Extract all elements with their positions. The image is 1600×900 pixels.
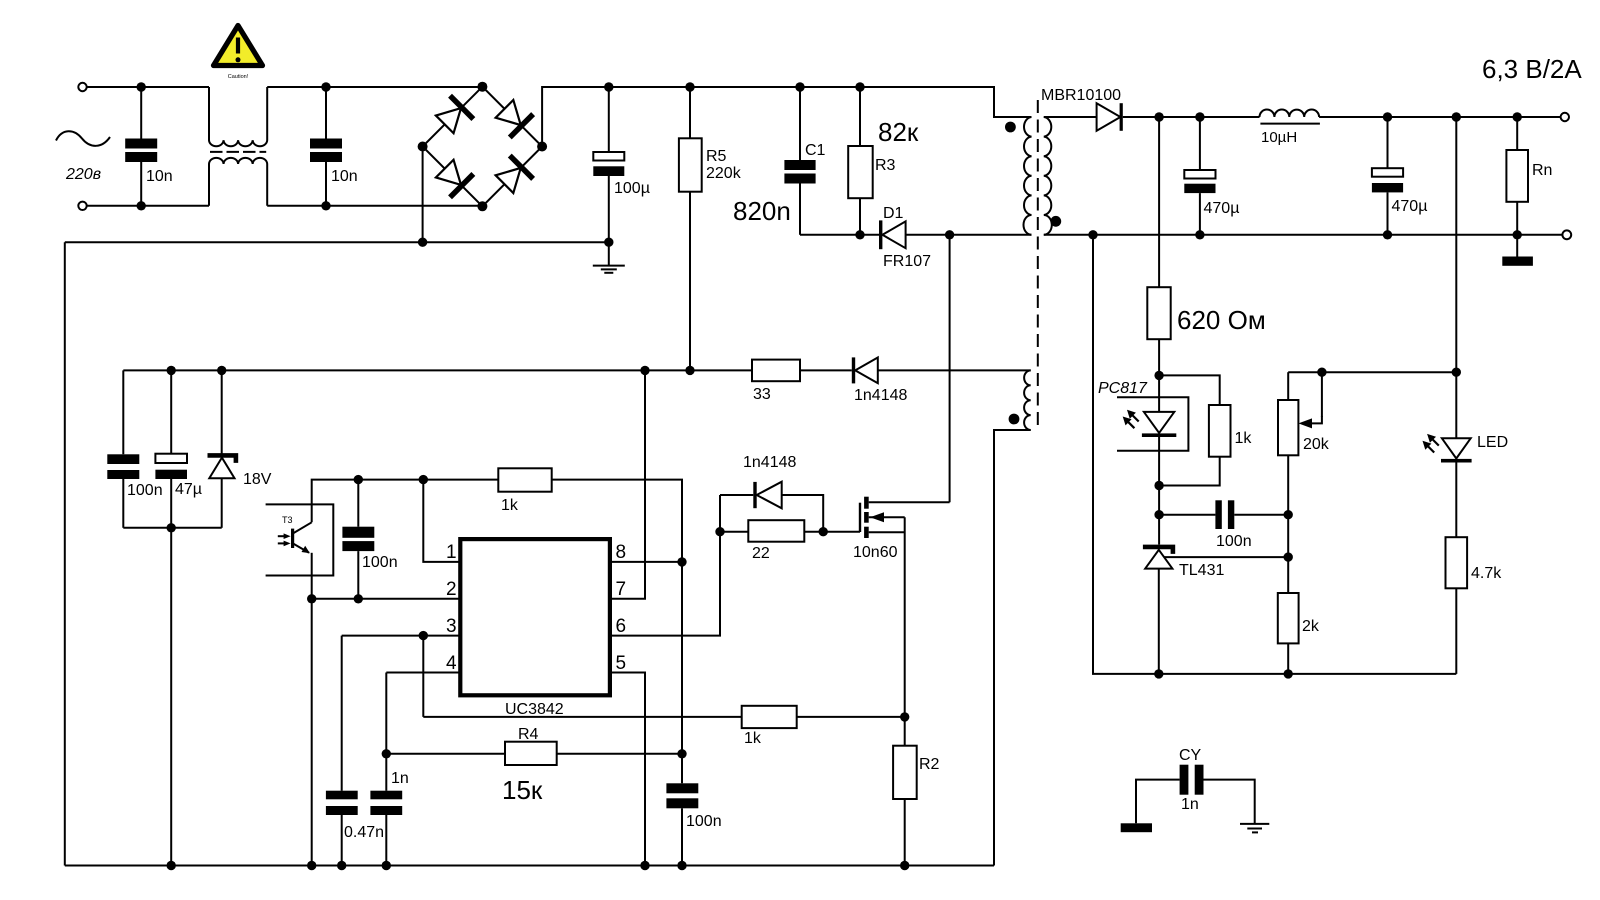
ground earth symbol under C4 bbox=[593, 242, 625, 273]
capacitor C9 100n bbox=[107, 370, 162, 527]
wire AC top left bbox=[87, 86, 209, 88]
wire secondary top bbox=[1044, 116, 1097, 118]
junction dot bbox=[167, 366, 176, 375]
junction dot bbox=[1383, 112, 1392, 121]
terminal output plus bbox=[1561, 113, 1569, 121]
junction dot bbox=[1513, 230, 1522, 239]
diode D6 1n4148 gate bbox=[720, 454, 823, 532]
wire 1k to source node bbox=[797, 716, 905, 718]
capacitor C2 10n bbox=[125, 87, 173, 206]
wire aux return to ground bbox=[994, 430, 1031, 866]
capacitor C4 100u electrolytic bbox=[593, 87, 650, 242]
svg-text:R3: R3 bbox=[875, 157, 896, 174]
capacitor C6 470u electrolytic bbox=[1372, 117, 1428, 235]
junction dot gate bbox=[819, 527, 828, 536]
wire Vcc aux rail segment bbox=[800, 369, 852, 371]
transformer T1 aux winding bbox=[1024, 370, 1031, 430]
wire 20k top to LED line bbox=[1288, 371, 1456, 373]
junction dot bbox=[354, 594, 363, 603]
resistor R12 33 bbox=[752, 360, 800, 403]
junction dot bbox=[1452, 368, 1461, 377]
resistor R11 1k current sense bbox=[742, 706, 797, 747]
optocoupler U3 PC817 LED side box bbox=[1098, 380, 1188, 451]
terminal AC bottom bbox=[78, 202, 86, 210]
op-amp U1 UC3842 box bbox=[460, 539, 610, 718]
wire pin2 line bbox=[312, 598, 461, 600]
wire pin3 riser to current sense line bbox=[422, 636, 424, 717]
svg-text:620 Ом: 620 Ом bbox=[1177, 305, 1266, 335]
primary phase dot bbox=[1005, 122, 1016, 133]
capacitor C3 10n bbox=[310, 87, 358, 206]
capacitor C13 1n bbox=[370, 673, 408, 866]
bridge diode top-right bbox=[493, 97, 533, 137]
pin 6 bbox=[610, 495, 720, 637]
svg-text:1k: 1k bbox=[501, 497, 519, 514]
svg-text:C1: C1 bbox=[805, 142, 826, 159]
svg-text:2: 2 bbox=[446, 579, 457, 600]
wire DC+ rail to transformer bbox=[542, 87, 1031, 147]
wire output rail left bbox=[1123, 116, 1260, 118]
svg-text:0.47n: 0.47n bbox=[344, 824, 384, 841]
svg-text:CY: CY bbox=[1179, 747, 1202, 764]
resistor Rn load bbox=[1506, 117, 1552, 235]
inductor L2 10uH bbox=[1260, 110, 1320, 146]
diode D2 MBR10100 bbox=[1041, 87, 1123, 131]
junction dot bbox=[167, 523, 176, 532]
diode D1 FR107 bbox=[879, 205, 931, 270]
potentiometer RP1 20k bbox=[1278, 372, 1330, 593]
pin 1 bbox=[423, 480, 460, 563]
wire AC bottom left bbox=[87, 205, 209, 207]
pin 8 bbox=[610, 542, 682, 563]
bridge node left bbox=[418, 142, 428, 152]
svg-text:R2: R2 bbox=[919, 756, 940, 773]
pin 3 bbox=[342, 616, 461, 637]
svg-text:470µ: 470µ bbox=[1392, 198, 1428, 215]
svg-text:220в: 220в bbox=[65, 166, 101, 183]
junction dot bbox=[1154, 510, 1163, 519]
svg-text:1: 1 bbox=[446, 542, 457, 563]
svg-text:15к: 15к bbox=[502, 775, 543, 805]
svg-text:22: 22 bbox=[752, 545, 770, 562]
ground bar primary side CY bbox=[1121, 823, 1152, 832]
bridge node right bbox=[537, 142, 547, 152]
svg-text:6,3 В/2А: 6,3 В/2А bbox=[1482, 54, 1582, 84]
wire emitter node down to rail bbox=[311, 599, 313, 866]
wire Vcc aux rail to winding bbox=[878, 369, 1031, 371]
choke core dashed line bbox=[210, 151, 266, 153]
wire TL431 ref bbox=[1164, 556, 1288, 558]
junction dot bbox=[217, 366, 226, 375]
junction dot bbox=[1154, 481, 1163, 490]
resistor R5 220k bbox=[679, 87, 742, 370]
resistor R4 15k bbox=[386, 726, 682, 805]
svg-text:1n4148: 1n4148 bbox=[743, 454, 796, 471]
terminal output minus bbox=[1562, 230, 1571, 239]
junction dot bbox=[1195, 230, 1204, 239]
pin 7 bbox=[610, 370, 645, 600]
junction dot R4 left bbox=[382, 749, 391, 758]
svg-text:R4: R4 bbox=[518, 726, 539, 743]
junction dot pin5 rail bbox=[640, 861, 649, 870]
svg-text:4: 4 bbox=[446, 653, 457, 674]
junction dot bbox=[685, 366, 694, 375]
wire secondary bottom rail bbox=[1044, 234, 1563, 236]
wire AC bottom right bbox=[267, 205, 482, 207]
svg-text:Caution!: Caution! bbox=[228, 74, 249, 80]
junction dot bbox=[307, 594, 316, 603]
resistor R10 1k bbox=[498, 468, 551, 514]
junction dot bbox=[1383, 230, 1392, 239]
resistor R2 current sense bbox=[893, 746, 939, 866]
svg-text:LED: LED bbox=[1477, 434, 1508, 451]
junction dot bbox=[1452, 112, 1461, 121]
wire snubber bottom bbox=[800, 234, 879, 236]
capacitor C7 100n bbox=[1159, 500, 1288, 550]
junction dot bbox=[677, 861, 686, 870]
junction dot bbox=[137, 201, 146, 210]
resistor R8 2k bbox=[1278, 593, 1320, 674]
capacitor C1 820n bbox=[733, 87, 826, 235]
junction dot bbox=[1154, 669, 1163, 678]
junction dot bbox=[795, 82, 804, 91]
junction dot bbox=[137, 82, 146, 91]
chassis ground bar under Rn bbox=[1502, 235, 1533, 266]
svg-text:10n: 10n bbox=[331, 168, 358, 185]
pin 5 bbox=[610, 653, 645, 866]
svg-text:UC3842: UC3842 bbox=[505, 701, 564, 718]
svg-text:3: 3 bbox=[446, 616, 457, 637]
svg-text:PC817: PC817 bbox=[1098, 380, 1148, 397]
junction dot bbox=[1284, 510, 1293, 519]
svg-text:20k: 20k bbox=[1303, 436, 1330, 453]
svg-text:7: 7 bbox=[616, 579, 627, 600]
junction dot bbox=[337, 861, 346, 870]
optocoupler T3 transistor side bbox=[266, 504, 334, 575]
aux phase dot bbox=[1009, 414, 1020, 425]
junction dot bbox=[1513, 112, 1522, 121]
wire secondary ground down and across bbox=[1093, 235, 1456, 674]
capacitor C8 CY 1n bbox=[1136, 747, 1255, 823]
junction dot bbox=[1154, 371, 1163, 380]
wire 47u down to ground rail bbox=[170, 528, 172, 866]
transformer T1 primary winding bbox=[1024, 117, 1032, 235]
diode D5 1n4148 bbox=[852, 357, 908, 404]
ground earth symbol CY secondary bbox=[1240, 824, 1269, 833]
resistor R6 620 Ohm bbox=[1147, 117, 1265, 375]
pin 4 bbox=[386, 653, 460, 674]
shunt regulator U2 TL431 bbox=[1143, 547, 1225, 579]
wire drain riser bbox=[949, 235, 951, 503]
junction dot bbox=[1284, 552, 1293, 561]
bridge diode bottom-right bbox=[493, 156, 533, 196]
junction dot bbox=[418, 238, 427, 247]
wire left side down bbox=[64, 242, 66, 865]
svg-text:100n: 100n bbox=[1216, 533, 1252, 550]
junction dot bbox=[354, 475, 363, 484]
wire bottom ground rail bbox=[65, 865, 994, 867]
common-mode choke L1 bottom winding bbox=[209, 158, 267, 206]
junction dot bbox=[1154, 112, 1163, 121]
svg-text:18V: 18V bbox=[243, 471, 272, 488]
junction dot bbox=[1088, 230, 1097, 239]
junction dot bbox=[855, 82, 864, 91]
resistor R13 22 gate bbox=[720, 520, 860, 562]
junction dot bbox=[604, 238, 613, 247]
junction dot bbox=[167, 861, 176, 870]
junction dot bbox=[855, 230, 864, 239]
svg-text:82к: 82к bbox=[878, 117, 919, 147]
svg-text:8: 8 bbox=[616, 542, 627, 563]
svg-text:10n: 10n bbox=[146, 168, 173, 185]
bridge diode bottom-left bbox=[433, 157, 473, 197]
capacitor C10 47u electrolytic bbox=[155, 370, 202, 527]
svg-text:820n: 820n bbox=[733, 196, 791, 226]
svg-text:FR107: FR107 bbox=[883, 253, 931, 270]
wire current sense line bbox=[423, 716, 741, 718]
svg-text:10µH: 10µH bbox=[1261, 129, 1297, 146]
svg-text:Rn: Rn bbox=[1532, 162, 1552, 179]
junction dot pin8 bbox=[677, 557, 686, 566]
bridge diode top-left bbox=[433, 96, 473, 136]
transistor Q1 10n60 MOSFET bbox=[853, 497, 950, 746]
junction dot bbox=[419, 475, 428, 484]
secondary phase dot bbox=[1050, 216, 1061, 227]
junction dot bbox=[1317, 368, 1326, 377]
junction dot bbox=[321, 82, 330, 91]
svg-text:5: 5 bbox=[616, 653, 627, 674]
wire AC top right bbox=[267, 86, 482, 88]
wire opto emitter down bbox=[311, 553, 313, 599]
wire output rail right bbox=[1319, 116, 1561, 118]
svg-text:470µ: 470µ bbox=[1204, 200, 1240, 217]
svg-text:47µ: 47µ bbox=[175, 481, 202, 498]
wire opto collector to Vcc node bbox=[312, 480, 499, 523]
junction dot bbox=[900, 861, 909, 870]
svg-text:1k: 1k bbox=[1235, 430, 1253, 447]
capacitor C14 100n Vref bbox=[666, 783, 721, 865]
bridge node top bbox=[477, 82, 487, 92]
svg-text:100n: 100n bbox=[686, 813, 722, 830]
wire Vcc filter bottom join bbox=[123, 527, 221, 529]
wire D1 to primary bbox=[906, 234, 1032, 236]
junction dot bbox=[900, 712, 909, 721]
transformer T1 core dashed bbox=[1037, 100, 1039, 427]
junction dot bbox=[307, 861, 316, 870]
svg-text:1k: 1k bbox=[744, 730, 762, 747]
wire Vcc aux rail bbox=[123, 369, 752, 371]
wire 1k to pin8 riser bbox=[552, 480, 682, 784]
svg-text:100n: 100n bbox=[362, 554, 398, 571]
junction dot bbox=[640, 366, 649, 375]
common-mode choke L1 top winding bbox=[209, 87, 267, 146]
svg-text:2k: 2k bbox=[1302, 618, 1320, 635]
svg-text:T3: T3 bbox=[282, 515, 293, 525]
svg-text:220k: 220k bbox=[706, 165, 742, 182]
AC source 220v symbol bbox=[56, 131, 110, 183]
LED indicator D4 bbox=[1423, 117, 1509, 537]
svg-text:1n: 1n bbox=[391, 770, 409, 787]
svg-text:100µ: 100µ bbox=[614, 180, 650, 197]
warning triangle Caution bbox=[214, 26, 263, 81]
resistor R9 4.7k bbox=[1446, 537, 1503, 674]
svg-text:10n60: 10n60 bbox=[853, 544, 898, 561]
wire TL431 anode down bbox=[1158, 569, 1160, 674]
junction dot bbox=[321, 201, 330, 210]
transformer T1 secondary winding bbox=[1044, 117, 1052, 235]
wire LED cathode down bbox=[1158, 486, 1160, 545]
svg-text:D1: D1 bbox=[883, 205, 904, 222]
svg-text:4.7k: 4.7k bbox=[1471, 565, 1502, 582]
svg-text:R5: R5 bbox=[706, 148, 727, 165]
bridge node bottom bbox=[477, 201, 487, 211]
junction dot bbox=[685, 82, 694, 91]
svg-text:1n4148: 1n4148 bbox=[854, 387, 907, 404]
svg-text:100n: 100n bbox=[127, 482, 163, 499]
optocoupler LED symbol bbox=[1123, 375, 1177, 485]
junction dot pin6 node bbox=[715, 527, 724, 536]
junction dot bbox=[604, 82, 613, 91]
wire primary ground rail bbox=[65, 241, 609, 243]
resistor R3 82k bbox=[848, 87, 919, 235]
svg-text:TL431: TL431 bbox=[1179, 562, 1224, 579]
zener diode VD5 18V bbox=[208, 370, 272, 527]
junction dot pin3 bbox=[419, 631, 428, 640]
capacitor C5 470u electrolytic bbox=[1184, 117, 1239, 235]
capacitor C11 100n Vcc bypass bbox=[342, 480, 397, 599]
wire bridge negative down bbox=[422, 147, 424, 243]
svg-text:1n: 1n bbox=[1181, 796, 1199, 813]
svg-text:6: 6 bbox=[616, 616, 627, 637]
junction dot bbox=[1195, 112, 1204, 121]
junction dot drain node bbox=[945, 230, 954, 239]
bridge rectifier diamond wires bbox=[423, 87, 542, 207]
capacitor C12 0.47n bbox=[326, 636, 384, 866]
junction dot bbox=[382, 861, 391, 870]
junction dot bbox=[1284, 669, 1293, 678]
terminal AC top bbox=[78, 83, 86, 91]
resistor R7 1k feedback bbox=[1159, 375, 1252, 485]
svg-text:33: 33 bbox=[753, 386, 771, 403]
svg-text:MBR10100: MBR10100 bbox=[1041, 87, 1121, 104]
junction dot R4 right bbox=[677, 749, 686, 758]
